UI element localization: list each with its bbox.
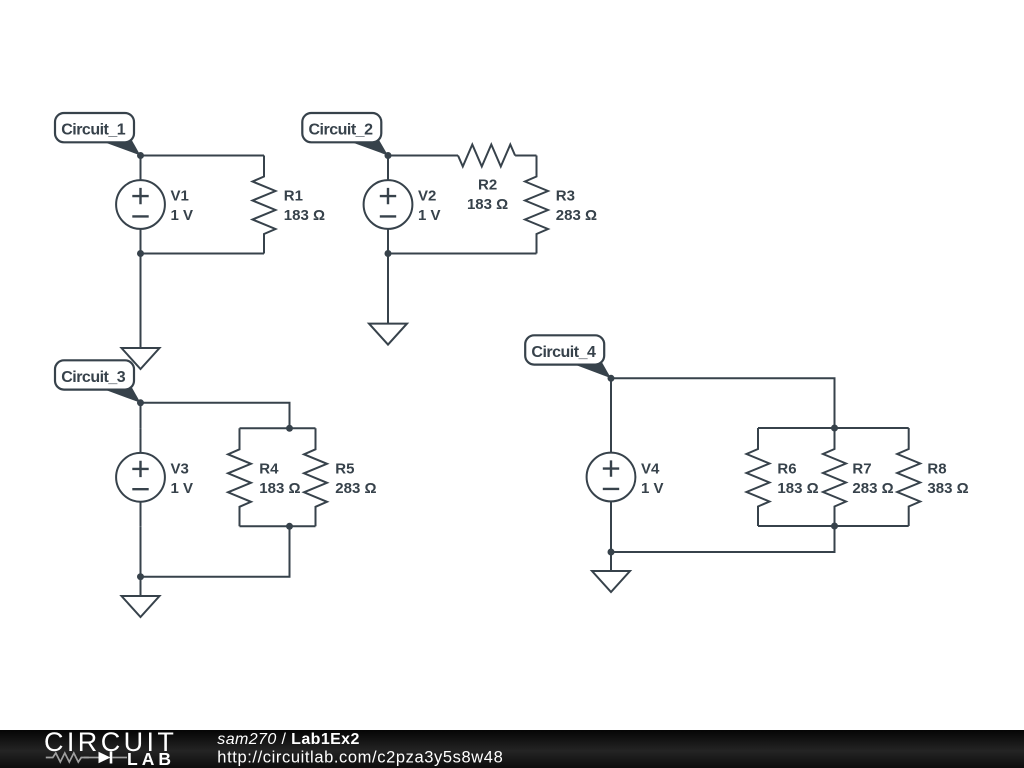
resistor R3 [525,156,597,254]
resistor R7 [823,428,894,526]
svg-text:1 V: 1 V [171,480,194,497]
node c3 top junction [286,425,293,432]
logo wire [84,757,99,759]
resistor R4 [228,428,301,526]
resistor R6 [747,428,819,526]
node label Circuit_3 [55,360,141,403]
svg-text:1 V: 1 V [641,480,664,497]
svg-text:LAB: LAB [127,749,175,768]
wire c1 bottom [141,253,265,255]
wire c4 to ground [610,552,612,571]
wire c3 bottom return [141,526,290,576]
footer bar [0,730,1024,768]
wire c1 top [141,155,265,157]
voltage source V4 [587,428,664,526]
node c1 bottom node [137,250,144,257]
svg-text:283 Ω: 283 Ω [852,480,893,497]
ground GND c3 [122,596,160,617]
voltage source V2 [364,156,441,254]
node label Circuit_2 [302,113,388,156]
node c3 bottom node [137,573,144,580]
svg-text:R4: R4 [259,460,279,477]
svg-text:V2: V2 [418,188,436,205]
node c2 top node [385,152,392,159]
wire c3 top [141,403,290,429]
node c3 bottom junction [286,523,293,530]
wire c3 parallel top bar [240,427,316,429]
svg-text:1 V: 1 V [171,207,194,224]
svg-text:R1: R1 [284,188,303,205]
wire c4 parallel bottom bar [758,525,909,527]
node c4 bottom node [608,549,615,556]
svg-text:R2: R2 [478,177,497,194]
wire c1 to ground [140,254,142,349]
wire c4 V4 bottom lead [610,526,612,552]
svg-text:183 Ω: 183 Ω [467,196,508,213]
svg-text:R7: R7 [852,460,871,477]
wire c2 node to R2 [388,155,458,157]
node c4 bottom junction [831,523,838,530]
svg-text:Circuit_2: Circuit_2 [309,122,374,139]
logo resistor symbol [46,753,89,762]
svg-text:R6: R6 [777,460,796,477]
wire c4 bottom return [611,526,835,552]
svg-text:R5: R5 [335,460,354,477]
voltage source V1 [116,156,193,254]
resistor R2 [458,145,515,214]
wire c2 bottom [388,253,537,255]
svg-text:283 Ω: 283 Ω [556,207,597,224]
resistor R1 [253,156,326,254]
node label Circuit_4 [525,335,611,378]
wire c2 to ground [387,254,389,324]
wire c3 V3 bottom lead [140,526,142,576]
svg-text:sam270 / Lab1Ex2: sam270 / Lab1Ex2 [217,731,359,748]
svg-text:1 V: 1 V [418,207,441,224]
node c2 bottom node [385,250,392,257]
node c4 top node [608,375,615,382]
svg-text:http://circuitlab.com/c2pza3y5: http://circuitlab.com/c2pza3y5s8w48 [217,749,503,767]
voltage source V3 [116,428,193,526]
wire c4 parallel top bar [758,427,909,429]
ground GND c2 [369,324,407,345]
svg-text:V4: V4 [641,460,660,477]
svg-text:Circuit_3: Circuit_3 [61,369,126,386]
wire c3 parallel bottom bar [240,525,316,527]
svg-text:Circuit_4: Circuit_4 [531,344,596,361]
svg-text:283 Ω: 283 Ω [335,480,376,497]
wire c3 to ground [140,577,142,596]
resistor R5 [304,428,377,526]
svg-text:R8: R8 [927,460,946,477]
node c4 top junction [831,425,838,432]
svg-text:183 Ω: 183 Ω [284,207,325,224]
ground GND c4 [592,571,630,592]
svg-text:183 Ω: 183 Ω [259,480,300,497]
node label Circuit_1 [55,113,141,156]
svg-text:R3: R3 [556,188,575,205]
wire c3 V3 top lead [140,403,142,429]
ground GND c1 [122,348,160,369]
resistor R8 [897,428,968,526]
wire c2 R2 to corner [515,155,536,157]
node c3 top node [137,399,144,406]
svg-text:V1: V1 [171,188,189,205]
svg-text:383 Ω: 383 Ω [927,480,968,497]
logo diode [99,752,111,763]
wire c4 top [611,378,835,428]
svg-text:183 Ω: 183 Ω [777,480,818,497]
svg-text:Circuit_1: Circuit_1 [61,122,126,139]
node c1 top node [137,152,144,159]
wire c4 V4 top lead [610,378,612,428]
svg-text:V3: V3 [171,460,189,477]
